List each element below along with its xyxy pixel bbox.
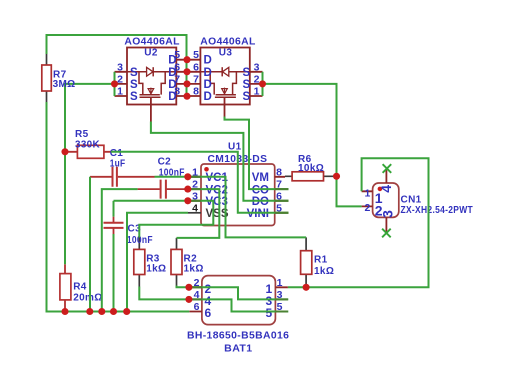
resistor R6 [285,172,335,181]
svg-text:ZX-XH2.54-2PWT: ZX-XH2.54-2PWT [401,205,474,216]
wire overlap: U1 right pin stubs under green [275,189,289,213]
resistor R2 [171,238,182,286]
svg-text:R5: R5 [75,129,89,140]
svg-text:CO: CO [252,184,269,196]
junction: U3 sources pin 2 [259,80,266,87]
svg-text:CN1: CN1 [401,195,422,206]
junction: BAT1 pin 2 [185,284,192,291]
svg-text:7: 7 [193,73,199,85]
svg-text:6: 6 [204,306,211,320]
svg-text:DO: DO [252,196,269,208]
wire: U2 source tie vertical [114,72,116,96]
junction: R5 left at left column [61,148,68,155]
svg-text:S: S [130,79,138,91]
wire: U2 gate to U1 DO pin 6 [151,122,289,201]
wire: BAT1 pin 2 jog over box to pin 3 [189,287,288,299]
capacitor C3 [104,217,124,234]
svg-text:1kΩ: 1kΩ [314,266,334,277]
svg-text:C1: C1 [110,148,124,159]
svg-text:8: 8 [193,86,199,98]
wire: C3 top lead from VC3 row [113,201,115,217]
wire: R7 bottom down and bottom bus to BAT1 pin 6 [47,102,190,312]
wire: C1 left lead down to bottom bus [89,177,91,312]
pin numbers U2 right [174,49,180,97]
svg-text:VINI: VINI [247,208,269,220]
junction: drain bus pin 5 [183,56,190,63]
wire: C3 bottom lead to bottom bus [113,234,115,312]
wire: BAT1 pin 1 through R1 junction loop to CN1 pin 1 [288,158,429,287]
pin names U1 right [247,172,269,220]
svg-text:6: 6 [194,301,200,313]
pin numbers CN1 inside [375,185,396,219]
pin names U1 left [206,172,229,208]
wire: U3 source tie vertical [262,72,264,96]
svg-text:1uF: 1uF [110,159,126,170]
svg-text:8: 8 [276,166,282,178]
svg-text:1: 1 [277,277,283,289]
svg-text:7: 7 [174,73,180,85]
svg-text:D: D [204,91,212,103]
battery holder BAT1 (BH-18650-B5BA016) [189,276,288,325]
pin numbers U3 right [254,61,260,97]
op-amp U1 (CM1033-DS battery protection IC) [188,164,289,226]
junction: bus at VSS line [123,308,130,315]
junction: U1 VC2 pin 2 [184,186,191,193]
svg-text:VM: VM [252,172,269,184]
junction: bus at R4 [61,308,68,315]
wire: BAT1 pin 4 jog over box to pin 5 [189,299,288,311]
wire: R5 right to U1 VINI pin 5 [111,152,289,213]
capacitor C1 [90,167,155,187]
wire: R2 bottom to BAT1 pin 2 junction [177,286,189,288]
wire: VC1 junction over U1 down to R1 top [188,177,306,238]
svg-text:S: S [243,91,251,103]
transistor U3 (AO4406AL MOSFET) [200,48,262,117]
pin numbers CN1 outside [365,188,371,215]
svg-text:BAT1: BAT1 [224,344,252,355]
junction: U1 VC3 pin 3 [184,197,191,204]
svg-text:1: 1 [117,86,123,98]
no-connect X on CN1 pin 4 [383,164,392,173]
pin numbers BAT1 outside left [194,277,200,313]
resistor R3 [134,238,145,287]
svg-text:S: S [130,67,138,79]
svg-text:10kΩ: 10kΩ [298,163,324,174]
pin numbers U3 left [193,49,199,97]
svg-text:S: S [243,79,251,91]
resistor R5 [65,145,111,158]
svg-text:1: 1 [254,86,260,98]
resistor R7 [42,54,52,102]
svg-text:4: 4 [192,202,198,214]
wire overlap: BAT1 right pin stubs under green [275,299,288,311]
junction: R6 right [333,173,340,180]
svg-text:R4: R4 [73,282,87,293]
transistor U2 (AO4406AL MOSFET) [115,48,201,122]
junction: bus at C2 [98,308,105,315]
wire: U3 gate to U1 CO pin 7 [225,117,289,190]
pin numbers U1 right [276,166,282,214]
svg-text:1: 1 [365,188,371,200]
junction: BAT1 pin 4 [185,296,192,303]
svg-text:330K: 330K [75,139,100,150]
svg-text:3: 3 [117,61,123,73]
svg-text:6: 6 [174,61,180,73]
resistor R4 [60,264,71,311]
wire: VC2 junction over U1 down to R2 top [177,189,220,238]
svg-text:AO4406AL: AO4406AL [124,37,179,48]
wire: VC3 junction over U1 down to R3 top [139,201,213,238]
svg-text:U2: U2 [144,48,158,59]
svg-text:8: 8 [174,86,180,98]
pin numbers BAT1 inside left [204,282,211,320]
wire: B+ top rail from R7 top to drain bus [47,35,187,96]
wire: C2 line to bus and to C2 left lead [102,189,138,311]
svg-text:5: 5 [265,306,272,320]
svg-text:5: 5 [174,49,180,61]
svg-text:BH-18650-B5BA016: BH-18650-B5BA016 [187,331,289,342]
svg-text:6: 6 [193,61,199,73]
junction: bus at C3 [110,308,117,315]
capacitor C2 [138,180,188,199]
svg-text:S: S [130,91,138,103]
pin numbers U2 left [117,61,123,97]
junction: U1 VC1 pin 1 [184,173,191,180]
svg-text:1kΩ: 1kΩ [184,263,204,274]
svg-text:C2: C2 [158,156,172,167]
pin numbers U1 left [192,166,198,202]
junction: bus at C1 [86,308,93,315]
junction: R1 bottom [303,284,310,291]
wire: R3 bottom to BAT1 pin 4 junction [139,287,189,300]
junction: drain bus pin 6 [183,68,190,75]
svg-text:AO4406AL: AO4406AL [200,37,255,48]
wire: U1 VSS pin 4 to bottom bus [127,213,188,312]
svg-text:D: D [204,67,212,79]
pin numbers BAT1 inside right [265,282,272,320]
svg-text:2: 2 [254,73,260,85]
no-connect X on CN1 pin 3 [382,229,391,238]
svg-text:20mΩ: 20mΩ [73,293,102,304]
svg-text:3: 3 [379,210,395,218]
junction: drain bus pin 7 [183,80,190,87]
svg-text:S: S [243,67,251,79]
connector CN1 (ZX-XH2.54-2PWT) [362,168,399,233]
wire: U2 sources to left column and down to R5/R4 [65,84,115,264]
pin numbers BAT1 outside right [277,277,283,313]
svg-text:1kΩ: 1kΩ [146,263,166,274]
wire overlap: U1 left pin stubs under green [188,177,201,201]
wire overlap: BAT1 left pin stubs under green [189,287,202,299]
svg-text:2: 2 [365,202,371,214]
wire: C3 top to VC3 junction row [114,200,188,202]
svg-text:5: 5 [193,49,199,61]
svg-text:3: 3 [254,61,260,73]
wire: C1 right lead to VC1 junction [155,176,188,178]
svg-text:D: D [204,79,212,91]
junction: drain bus pin 8 [183,93,190,100]
svg-text:R1: R1 [314,255,328,266]
pin letters U3 [204,55,251,103]
pin letters U2 [130,55,177,103]
svg-text:3MΩ: 3MΩ [53,79,76,90]
svg-text:4: 4 [378,185,394,193]
resistor R1 [301,237,312,287]
wire: U3 sources right to R6 junction down to CN1 pin 2 [263,84,362,206]
svg-text:D: D [204,55,212,67]
junction: U2 sources pin 2 [111,80,118,87]
svg-text:U3: U3 [219,48,233,59]
